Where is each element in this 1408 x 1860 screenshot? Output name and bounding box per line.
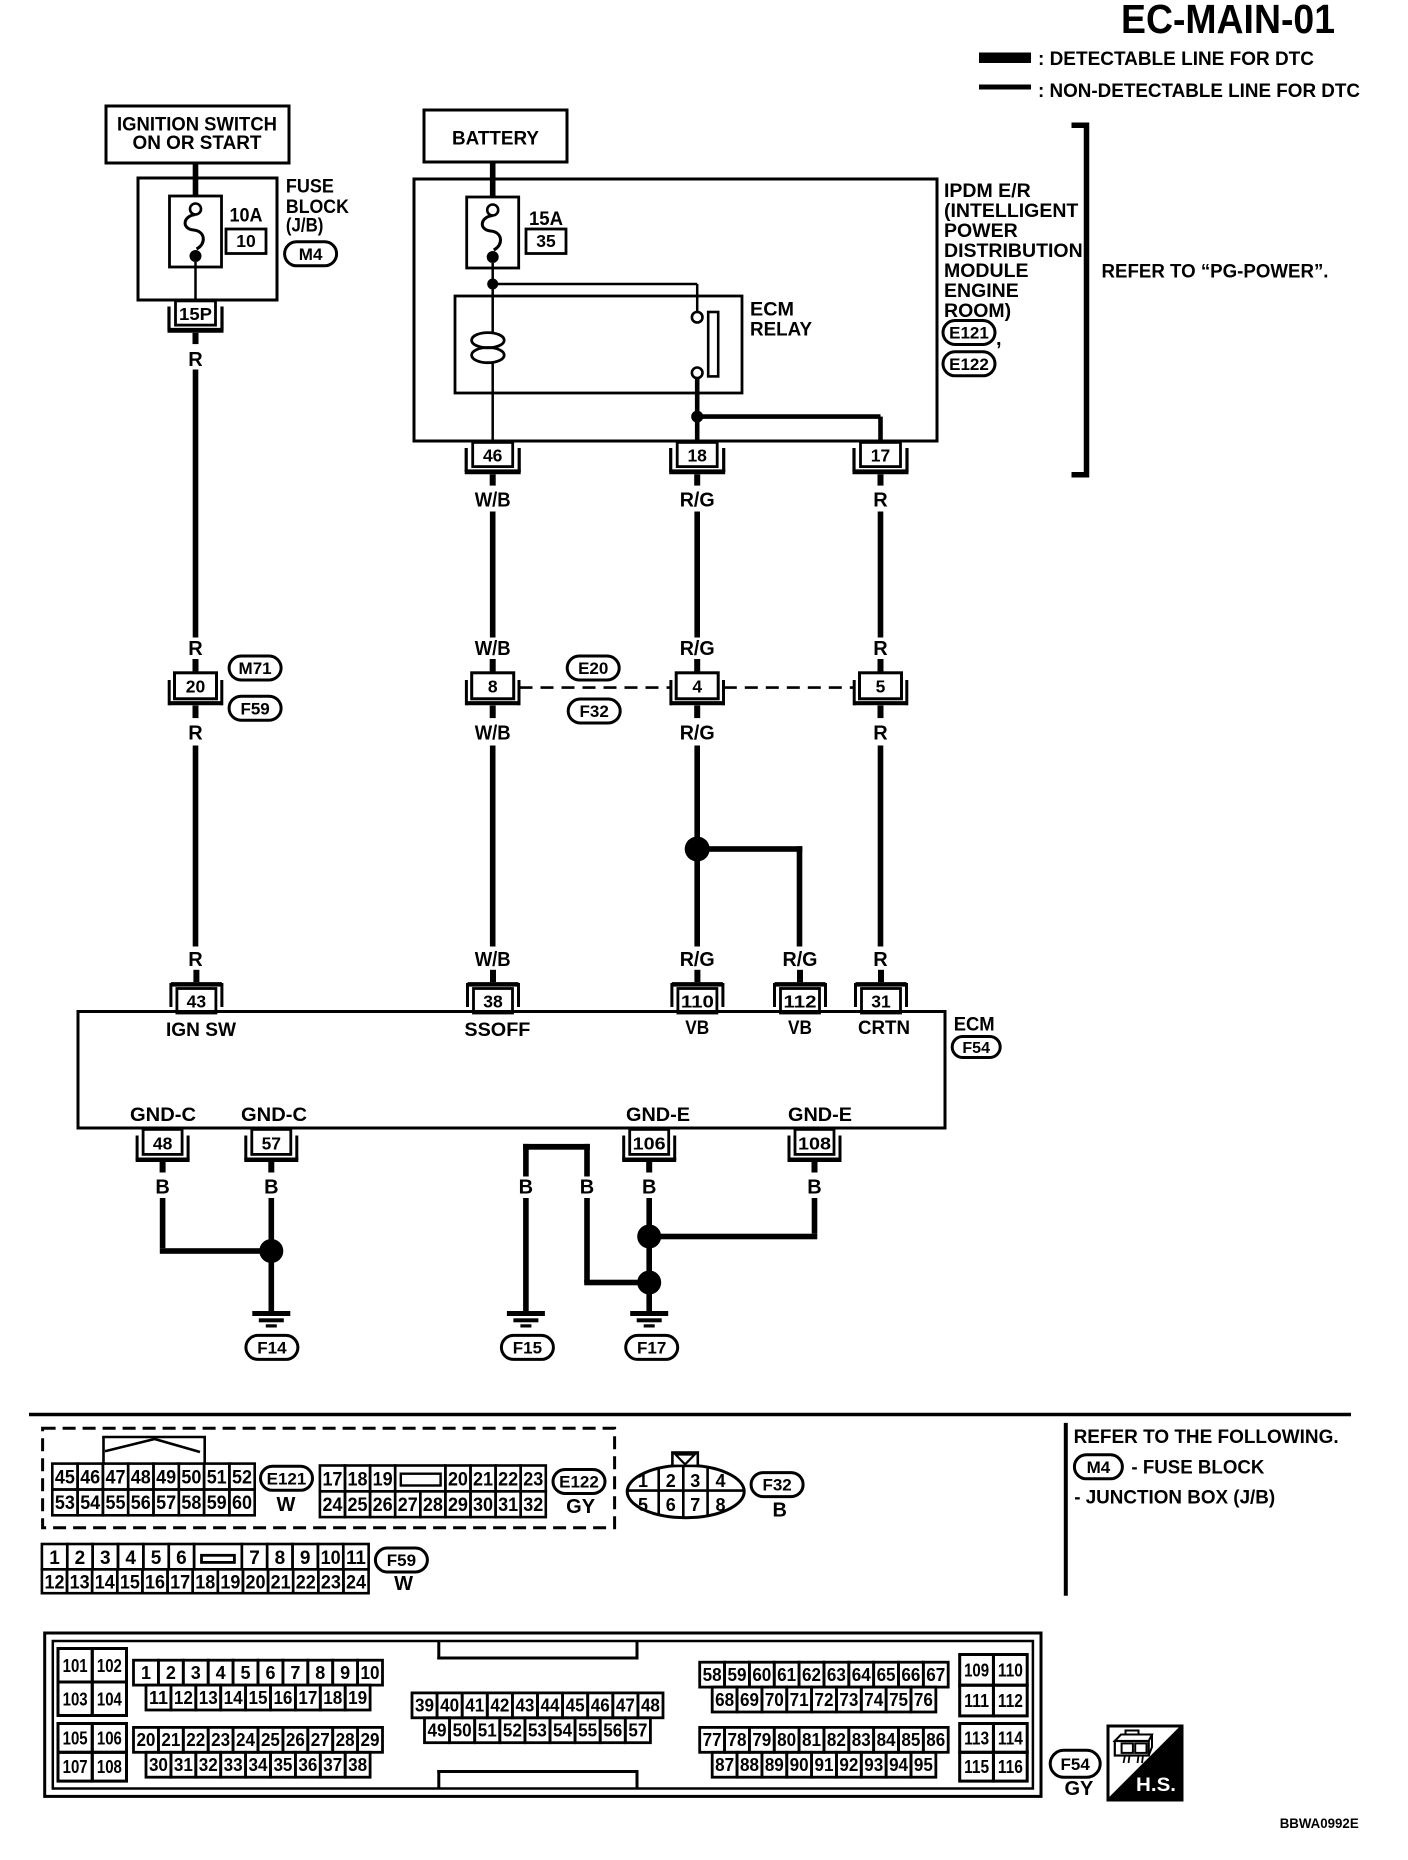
svg-text:,: , xyxy=(996,328,1002,350)
oval F14 xyxy=(246,1335,298,1359)
svg-text:48: 48 xyxy=(131,1467,151,1488)
svg-text:17: 17 xyxy=(871,446,890,466)
svg-text:W: W xyxy=(277,1494,296,1516)
svg-text:72: 72 xyxy=(815,1690,834,1710)
label R/G below 18 xyxy=(680,490,715,512)
svg-text:41: 41 xyxy=(465,1696,484,1716)
svg-text:73: 73 xyxy=(839,1690,858,1710)
svg-text:20: 20 xyxy=(448,1469,468,1490)
svg-text:3: 3 xyxy=(100,1548,111,1569)
oval F54 detail xyxy=(1050,1750,1100,1777)
label FUSE BLOCK (J/B) xyxy=(286,176,349,237)
svg-text:B: B xyxy=(264,1177,278,1199)
connector 4 xyxy=(671,659,724,718)
svg-text:21: 21 xyxy=(161,1730,180,1750)
svg-text:R: R xyxy=(188,349,203,371)
svg-text:IPDM E/R: IPDM E/R xyxy=(944,180,1031,202)
svg-text:57: 57 xyxy=(262,1134,281,1154)
svg-text:81: 81 xyxy=(802,1730,821,1750)
label GND-E right xyxy=(788,1104,852,1126)
svg-text:116: 116 xyxy=(998,1757,1023,1777)
svg-text:24: 24 xyxy=(236,1730,255,1750)
fuse 10A xyxy=(170,196,222,267)
svg-text:9: 9 xyxy=(300,1548,311,1569)
label W/B below connector 8 xyxy=(475,723,511,745)
label GY for E122 xyxy=(566,1496,596,1518)
svg-text:31: 31 xyxy=(871,992,891,1012)
IPDM pin 17 xyxy=(853,442,909,485)
svg-text:E20: E20 xyxy=(578,659,608,678)
svg-text:19: 19 xyxy=(220,1572,240,1593)
oval F17 xyxy=(626,1335,678,1359)
wire B from 48 xyxy=(160,1198,271,1254)
svg-text:27: 27 xyxy=(398,1495,418,1516)
svg-text:: NON-DETECTABLE LINE FOR DTC: : NON-DETECTABLE LINE FOR DTC xyxy=(1038,80,1360,102)
svg-text:10: 10 xyxy=(236,231,256,251)
svg-text:ECM: ECM xyxy=(750,299,794,321)
svg-text:B: B xyxy=(155,1177,169,1199)
relay coil xyxy=(472,333,505,363)
label R above connector 5 xyxy=(873,638,888,660)
svg-text:69: 69 xyxy=(740,1690,759,1710)
wire to ground F14 xyxy=(269,1251,275,1311)
svg-text:10: 10 xyxy=(321,1548,341,1569)
svg-text:31: 31 xyxy=(174,1755,193,1775)
relay contact top xyxy=(692,312,703,323)
wire relay output xyxy=(695,378,700,441)
legend non-detectable line sample xyxy=(979,85,1031,90)
svg-text:66: 66 xyxy=(901,1665,920,1685)
svg-text:E122: E122 xyxy=(559,1473,599,1492)
label VB right xyxy=(788,1017,812,1039)
svg-text:48: 48 xyxy=(153,1134,173,1154)
svg-text:B: B xyxy=(580,1177,594,1199)
svg-text:67: 67 xyxy=(926,1665,945,1685)
svg-text:63: 63 xyxy=(827,1665,846,1685)
svg-text:BATTERY: BATTERY xyxy=(452,128,539,150)
wire battery to fuse 15A xyxy=(490,162,496,198)
svg-text:6: 6 xyxy=(265,1663,275,1683)
wire B F15 right leg lower xyxy=(584,1198,649,1285)
label ECM xyxy=(954,1014,995,1036)
label B for F32 xyxy=(772,1500,786,1522)
oval F32 mid xyxy=(568,699,620,723)
ECM pin 43 xyxy=(171,970,222,1013)
junction dot F14 xyxy=(259,1239,283,1263)
label W/B above pin 38 xyxy=(475,949,511,971)
label REFER TO PG-POWER xyxy=(1102,261,1329,283)
wire B F15 left leg lower xyxy=(523,1198,529,1311)
svg-text:92: 92 xyxy=(839,1755,858,1775)
junction dot F17 xyxy=(637,1271,661,1295)
wire R upper xyxy=(193,370,199,638)
svg-text:8: 8 xyxy=(315,1663,325,1683)
svg-text:75: 75 xyxy=(889,1690,908,1710)
svg-text:DISTRIBUTION: DISTRIBUTION xyxy=(944,240,1083,262)
svg-text:21: 21 xyxy=(473,1469,493,1490)
svg-text:F54: F54 xyxy=(1061,1755,1091,1774)
svg-text:57: 57 xyxy=(628,1720,647,1740)
svg-text:58: 58 xyxy=(181,1493,201,1514)
svg-text:1: 1 xyxy=(638,1471,648,1491)
ECM box xyxy=(78,1012,945,1129)
svg-text:44: 44 xyxy=(541,1696,560,1716)
svg-text:104: 104 xyxy=(97,1689,122,1709)
oval M4 reference xyxy=(1074,1455,1122,1479)
ECM pin 57 xyxy=(244,1129,298,1172)
svg-text:55: 55 xyxy=(578,1720,597,1740)
oval F59 detail xyxy=(375,1548,427,1572)
svg-text:F32: F32 xyxy=(762,1476,791,1495)
svg-text:W: W xyxy=(394,1573,413,1595)
svg-text:112: 112 xyxy=(998,1691,1023,1711)
svg-text:10A: 10A xyxy=(230,205,263,227)
svg-text:101: 101 xyxy=(63,1656,88,1676)
label GND-C left xyxy=(130,1104,196,1126)
svg-text:VB: VB xyxy=(685,1017,709,1039)
svg-text:1: 1 xyxy=(49,1548,60,1569)
svg-text:4: 4 xyxy=(692,677,702,697)
svg-text:59: 59 xyxy=(207,1493,227,1514)
svg-text:W/B: W/B xyxy=(475,723,511,745)
svg-text:EC-MAIN-01: EC-MAIN-01 xyxy=(1121,0,1335,42)
wire B from 108 xyxy=(649,1198,817,1239)
connector grid F59 xyxy=(42,1544,369,1593)
svg-text:109: 109 xyxy=(964,1660,989,1680)
svg-text:8: 8 xyxy=(715,1495,725,1515)
svg-text:113: 113 xyxy=(964,1728,989,1748)
wire relay output to pin 17 xyxy=(697,417,880,441)
svg-text:16: 16 xyxy=(145,1572,165,1593)
svg-text:108: 108 xyxy=(97,1757,122,1777)
svg-text:60: 60 xyxy=(752,1665,771,1685)
svg-text:20: 20 xyxy=(136,1730,155,1750)
svg-text:65: 65 xyxy=(877,1665,896,1685)
svg-text:18: 18 xyxy=(323,1688,342,1708)
svg-text:35: 35 xyxy=(536,231,556,251)
svg-text:8: 8 xyxy=(275,1548,286,1569)
svg-text:53: 53 xyxy=(528,1720,547,1740)
ECM pin 48 xyxy=(136,1129,190,1172)
svg-text:M71: M71 xyxy=(239,659,272,678)
svg-text:14: 14 xyxy=(224,1688,243,1708)
svg-text:74: 74 xyxy=(864,1690,883,1710)
svg-text:50: 50 xyxy=(181,1467,201,1488)
svg-text:77: 77 xyxy=(703,1730,722,1750)
svg-text:58: 58 xyxy=(703,1665,722,1685)
svg-text:E121: E121 xyxy=(267,1469,307,1488)
label B F15 right xyxy=(580,1177,594,1199)
svg-text:2: 2 xyxy=(166,1663,176,1683)
svg-text:R: R xyxy=(188,723,203,745)
svg-text:23: 23 xyxy=(523,1469,543,1490)
svg-text:- JUNCTION BOX (J/B): - JUNCTION BOX (J/B) xyxy=(1074,1487,1275,1509)
wire R right lower xyxy=(878,746,884,947)
svg-text:22: 22 xyxy=(498,1469,518,1490)
svg-text:60: 60 xyxy=(232,1493,252,1514)
svg-text:11: 11 xyxy=(346,1548,366,1569)
svg-text:48: 48 xyxy=(641,1696,660,1716)
F54 grid 87-95 xyxy=(712,1752,936,1777)
label 15A xyxy=(529,208,563,230)
svg-text:11: 11 xyxy=(149,1688,168,1708)
svg-text:F59: F59 xyxy=(387,1551,416,1570)
label IGN SW xyxy=(166,1019,237,1041)
dashed detail box E121-E122 xyxy=(43,1428,615,1528)
svg-text:15: 15 xyxy=(120,1572,140,1593)
svg-text:115: 115 xyxy=(964,1757,989,1777)
svg-text:110: 110 xyxy=(681,992,714,1012)
svg-text:38: 38 xyxy=(483,992,503,1012)
oval E122 xyxy=(943,352,995,376)
fuse number box 35 xyxy=(526,229,566,254)
svg-text:(INTELLIGENT: (INTELLIGENT xyxy=(944,200,1078,222)
svg-text:70: 70 xyxy=(765,1690,784,1710)
svg-text:29: 29 xyxy=(361,1730,380,1750)
svg-text:W/B: W/B xyxy=(475,490,511,512)
svg-text:31: 31 xyxy=(498,1495,518,1516)
svg-text:46: 46 xyxy=(80,1467,100,1488)
svg-text:28: 28 xyxy=(336,1730,355,1750)
junction dot 106-108 xyxy=(637,1225,661,1249)
label R/G above pin 110 xyxy=(680,949,715,971)
svg-text:79: 79 xyxy=(752,1730,771,1750)
wire B F15 left leg upper xyxy=(523,1144,529,1177)
oval E121 detail xyxy=(261,1466,313,1490)
svg-text:GND-E: GND-E xyxy=(788,1104,852,1126)
svg-text:B: B xyxy=(519,1177,533,1199)
svg-text:GY: GY xyxy=(1064,1778,1094,1800)
svg-text:71: 71 xyxy=(790,1690,809,1710)
svg-text:57: 57 xyxy=(156,1493,176,1514)
F54 grid 101-104 xyxy=(58,1649,127,1716)
svg-text:GY: GY xyxy=(566,1496,596,1518)
svg-text:8: 8 xyxy=(488,677,498,697)
label JUNCTION BOX reference xyxy=(1074,1487,1275,1509)
svg-text:R/G: R/G xyxy=(680,723,715,745)
F54 grid 1-10 xyxy=(134,1660,383,1685)
ECM pin 38 xyxy=(468,970,519,1013)
svg-text:37: 37 xyxy=(323,1755,342,1775)
svg-text:102: 102 xyxy=(97,1656,122,1676)
svg-text:59: 59 xyxy=(727,1665,746,1685)
svg-text:4: 4 xyxy=(216,1663,226,1683)
F54 connector outline xyxy=(45,1633,1041,1796)
label FUSE BLOCK reference xyxy=(1131,1457,1264,1479)
svg-text:R/G: R/G xyxy=(680,638,715,660)
wire fuse 15A to junction xyxy=(491,263,494,284)
svg-text:MODULE: MODULE xyxy=(944,260,1029,282)
svg-text:29: 29 xyxy=(448,1495,468,1516)
oval F32 detail xyxy=(751,1473,803,1497)
svg-text:FUSE: FUSE xyxy=(286,176,334,198)
svg-text:REFER TO “PG-POWER”.: REFER TO “PG-POWER”. xyxy=(1102,261,1329,283)
F54 grid 49-57 xyxy=(425,1718,651,1743)
F54 grid 39-48 xyxy=(412,1693,663,1718)
wire R right upper xyxy=(878,512,884,638)
svg-text:R: R xyxy=(873,490,888,512)
label B below 57 xyxy=(264,1177,278,1199)
wire B from 106 xyxy=(646,1198,652,1237)
svg-text:12: 12 xyxy=(44,1572,64,1593)
svg-text:5: 5 xyxy=(638,1495,648,1515)
ignition switch box xyxy=(106,106,289,163)
svg-text:49: 49 xyxy=(156,1467,176,1488)
svg-text:61: 61 xyxy=(777,1665,796,1685)
svg-text:68: 68 xyxy=(715,1690,734,1710)
ground F14 xyxy=(252,1311,290,1328)
label IPDM E/R xyxy=(944,180,1083,322)
svg-text:6: 6 xyxy=(176,1548,187,1569)
svg-text:89: 89 xyxy=(765,1755,784,1775)
wire R/G branch vertical xyxy=(797,846,803,946)
svg-text:105: 105 xyxy=(63,1728,88,1748)
relay contact armature bar xyxy=(708,312,718,376)
svg-text:28: 28 xyxy=(423,1495,443,1516)
svg-text:E121: E121 xyxy=(949,324,989,343)
svg-text:19: 19 xyxy=(348,1688,367,1708)
title EC-MAIN-01 xyxy=(1121,0,1335,42)
ground F15 xyxy=(507,1311,545,1328)
dashed link connector 8 to 4 xyxy=(520,686,671,689)
svg-text:R: R xyxy=(188,638,203,660)
label W/B above connector 8 xyxy=(475,638,511,660)
svg-text:36: 36 xyxy=(298,1755,317,1775)
svg-text:F59: F59 xyxy=(240,699,269,718)
wire R/G upper xyxy=(694,512,700,638)
label CRTN xyxy=(858,1017,910,1039)
label B F15 left xyxy=(519,1177,533,1199)
svg-text:ROOM): ROOM) xyxy=(944,300,1011,322)
junction dot R/G split xyxy=(685,837,710,862)
svg-text:30: 30 xyxy=(149,1755,168,1775)
svg-text:SSOFF: SSOFF xyxy=(464,1019,530,1041)
svg-text:M4: M4 xyxy=(299,245,323,264)
fuse 15A xyxy=(467,197,519,268)
oval F59 xyxy=(229,696,281,720)
svg-text:15A: 15A xyxy=(529,208,563,230)
svg-text:15P: 15P xyxy=(179,304,212,324)
separator line xyxy=(29,1413,1351,1417)
svg-text:17: 17 xyxy=(298,1688,317,1708)
label R below 17 xyxy=(873,490,888,512)
svg-text:R/G: R/G xyxy=(680,949,715,971)
label R above pin 43 xyxy=(188,949,203,971)
label R below 15P xyxy=(188,349,203,371)
svg-text:87: 87 xyxy=(715,1755,734,1775)
svg-text:: DETECTABLE LINE FOR DTC: : DETECTABLE LINE FOR DTC xyxy=(1038,48,1314,70)
label GND-E left xyxy=(626,1104,690,1126)
svg-text:4: 4 xyxy=(715,1471,725,1491)
svg-text:112: 112 xyxy=(784,992,817,1012)
svg-text:GND-C: GND-C xyxy=(130,1104,196,1126)
fuse number box 10 xyxy=(226,229,266,254)
svg-text:33: 33 xyxy=(224,1755,243,1775)
svg-text:- FUSE BLOCK: - FUSE BLOCK xyxy=(1131,1457,1264,1479)
svg-text:20: 20 xyxy=(246,1572,266,1593)
label R below connector 5 xyxy=(873,723,888,745)
svg-text:GND-C: GND-C xyxy=(241,1104,307,1126)
svg-text:IGN SW: IGN SW xyxy=(166,1019,237,1041)
connector 8 E20-F32 xyxy=(466,659,519,718)
svg-text:M4: M4 xyxy=(1087,1458,1111,1477)
wire B from 57 xyxy=(269,1198,275,1243)
svg-text:7: 7 xyxy=(290,1663,300,1683)
svg-text:95: 95 xyxy=(914,1755,933,1775)
wire ignition switch to fuse block xyxy=(193,163,199,197)
svg-text:83: 83 xyxy=(852,1730,871,1750)
relay contact bottom xyxy=(692,368,703,379)
svg-text:ECM: ECM xyxy=(954,1014,995,1036)
svg-text:90: 90 xyxy=(790,1755,809,1775)
svg-text:108: 108 xyxy=(798,1134,831,1154)
connector E121 key xyxy=(102,1437,206,1464)
svg-text:R/G: R/G xyxy=(783,949,818,971)
fuse block J/B box xyxy=(138,178,277,300)
legend non-detectable text xyxy=(1038,80,1360,102)
svg-text:23: 23 xyxy=(321,1572,341,1593)
svg-text:18: 18 xyxy=(687,446,707,466)
svg-text:ON OR START: ON OR START xyxy=(133,132,262,154)
svg-text:B: B xyxy=(642,1177,656,1199)
label REFER TO THE FOLLOWING xyxy=(1074,1426,1339,1448)
svg-text:86: 86 xyxy=(926,1730,945,1750)
svg-text:B: B xyxy=(772,1500,786,1522)
ECM pin 31 xyxy=(856,970,907,1013)
svg-text:111: 111 xyxy=(964,1691,989,1711)
label SSOFF xyxy=(464,1019,530,1041)
svg-text:91: 91 xyxy=(815,1755,834,1775)
svg-text:106: 106 xyxy=(97,1728,122,1748)
svg-text:85: 85 xyxy=(901,1730,920,1750)
svg-text:84: 84 xyxy=(877,1730,896,1750)
oval F54 at ECM xyxy=(952,1037,1000,1058)
svg-text:64: 64 xyxy=(852,1665,871,1685)
label R above connector 20 xyxy=(188,638,203,660)
svg-text:18: 18 xyxy=(348,1469,368,1490)
svg-text:82: 82 xyxy=(827,1730,846,1750)
svg-text:76: 76 xyxy=(914,1690,933,1710)
svg-text:35: 35 xyxy=(273,1755,292,1775)
wire R/G lower xyxy=(694,746,700,947)
IPDM pin 46 xyxy=(465,442,521,485)
svg-text:F14: F14 xyxy=(257,1339,287,1358)
label B below 108 xyxy=(807,1177,821,1199)
svg-text:REFER TO THE FOLLOWING.: REFER TO THE FOLLOWING. xyxy=(1074,1426,1339,1448)
svg-text:40: 40 xyxy=(440,1696,459,1716)
connector grid E122 xyxy=(320,1466,546,1518)
svg-text:7: 7 xyxy=(249,1548,260,1569)
svg-text:E122: E122 xyxy=(949,355,989,374)
svg-text:43: 43 xyxy=(187,992,207,1012)
F54 grid 11-19 xyxy=(146,1685,370,1710)
svg-text:103: 103 xyxy=(63,1689,88,1709)
svg-text:GND-E: GND-E xyxy=(626,1104,690,1126)
svg-text:5: 5 xyxy=(876,677,886,697)
svg-text:13: 13 xyxy=(199,1688,218,1708)
svg-text:H.S.: H.S. xyxy=(1136,1775,1176,1796)
svg-text:39: 39 xyxy=(415,1696,434,1716)
label R/G above pin 112 xyxy=(783,949,818,971)
svg-text:114: 114 xyxy=(998,1728,1023,1748)
figure code BBWA0992E xyxy=(1280,1816,1359,1831)
connector F32 detail xyxy=(627,1453,744,1518)
svg-text:W/B: W/B xyxy=(475,949,511,971)
svg-text:3: 3 xyxy=(191,1663,201,1683)
svg-text:34: 34 xyxy=(249,1755,268,1775)
ground F17 xyxy=(630,1311,668,1328)
svg-text:15: 15 xyxy=(249,1688,268,1708)
